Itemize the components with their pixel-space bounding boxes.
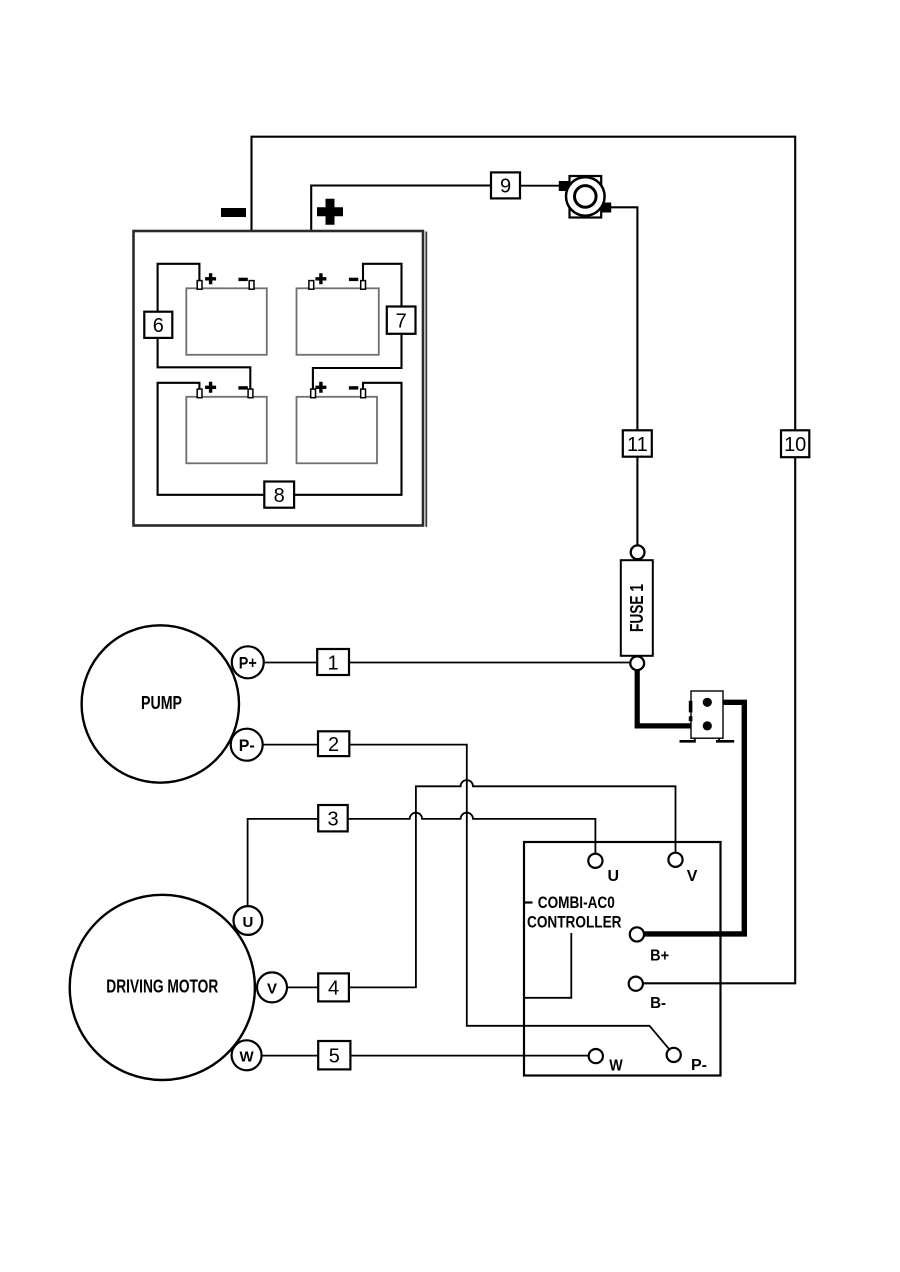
svg-text:7: 7 [396, 311, 407, 333]
wire 9 to keyswitch [520, 185, 560, 187]
svg-text:DRIVING MOTOR: DRIVING MOTOR [106, 977, 218, 997]
polarity marks B4 [315, 382, 326, 393]
label box 1 [317, 649, 349, 675]
svg-text:COMBI-AC0: COMBI-AC0 [538, 893, 615, 912]
polarity marks B2 [315, 273, 326, 284]
fuse F1 [621, 545, 653, 670]
svg-text:10: 10 [784, 434, 806, 456]
svg-text:3: 3 [327, 808, 338, 830]
motor terminal V [257, 972, 287, 1002]
svg-text:P+: P+ [239, 654, 257, 673]
svg-text:U: U [242, 914, 253, 931]
battery posts B2 [309, 281, 314, 290]
controller terminal W [589, 1049, 603, 1063]
polarity marks B1 [205, 273, 216, 284]
pump terminal P+ [232, 646, 264, 678]
controller terminal B+ [630, 927, 644, 941]
key switch KS [559, 176, 611, 218]
svg-text:P-: P- [691, 1057, 707, 1074]
svg-text:CONTROLLER: CONTROLLER [527, 913, 622, 932]
battery posts B3 [197, 389, 202, 398]
label box 11 [623, 430, 652, 456]
big plus symbol [317, 199, 343, 225]
battery B2 (top-right) [297, 288, 379, 355]
svg-text:V: V [267, 981, 277, 998]
controller name text [524, 901, 533, 903]
battery B1 (top-left) [186, 288, 266, 355]
label box 6 [144, 312, 172, 338]
label box 10 [781, 430, 809, 457]
controller internal line under text [525, 933, 571, 998]
pump terminal P- [231, 729, 263, 761]
controller terminal B- [629, 977, 643, 991]
wire 7: battery2 - to battery4 + [313, 264, 402, 391]
thick wire: contactor to controller B+ [645, 702, 745, 934]
contactor / line contactor [680, 691, 735, 741]
wire 5: motor W to controller W [262, 1055, 589, 1057]
wire 4: motor V to controller V with crossover [287, 780, 676, 987]
battery posts B1 [197, 281, 202, 290]
svg-text:W: W [609, 1058, 623, 1075]
label box 3 [318, 805, 348, 831]
pump motor [82, 625, 239, 782]
wire: battery minus to top rail to node 10 down to B- [252, 137, 796, 984]
wire 8: battery3 + to battery4 - [158, 383, 402, 495]
svg-text:6: 6 [153, 315, 164, 337]
driving motor [70, 895, 255, 1080]
wire 1: pump P+ to fuse [264, 662, 631, 664]
svg-text:U: U [608, 868, 620, 885]
battery B4 (bottom-right) [297, 397, 378, 464]
svg-text:B+: B+ [650, 948, 669, 965]
svg-text:P-: P- [239, 736, 255, 755]
wire 3: motor U to controller U with crossovers [248, 813, 596, 907]
wire 2: pump P- to controller P- [263, 745, 670, 1050]
motor terminal W [232, 1040, 262, 1070]
controller terminal U [588, 854, 602, 868]
label box 4 [318, 973, 349, 1001]
svg-text:W: W [240, 1049, 255, 1066]
svg-text:2: 2 [328, 734, 339, 756]
label box 9 [491, 172, 520, 198]
controller terminal P- [667, 1048, 681, 1062]
label box 5 [318, 1041, 350, 1069]
battery B3 (bottom-left) [186, 397, 266, 464]
battery box [134, 231, 424, 526]
svg-text:9: 9 [500, 176, 511, 198]
svg-text:V: V [687, 868, 698, 885]
label box 2 [318, 731, 349, 756]
polarity marks B3 [205, 382, 216, 393]
battery posts B4 [311, 389, 316, 398]
svg-text:5: 5 [329, 1046, 340, 1068]
label box 7 [387, 307, 416, 334]
wire 6: battery1 + to battery3 - [158, 264, 251, 391]
svg-text:4: 4 [328, 978, 339, 1000]
svg-text:1: 1 [328, 652, 339, 674]
svg-text:11: 11 [627, 434, 648, 456]
wire: battery plus up to keyswitch via 9 [311, 186, 491, 284]
wire: keyswitch to fuse via 11 [611, 207, 637, 545]
label box 8 [264, 482, 294, 508]
svg-text:FUSE 1: FUSE 1 [627, 584, 647, 632]
thick wire: fuse to contactor [637, 670, 704, 726]
svg-text:8: 8 [274, 485, 285, 507]
big minus symbol [221, 208, 246, 217]
controller box [524, 842, 721, 1076]
battery box shadow edge [425, 232, 427, 527]
svg-text:PUMP: PUMP [141, 692, 182, 713]
motor terminal U [234, 906, 263, 935]
controller terminal V [668, 853, 682, 867]
svg-text:B-: B- [650, 995, 666, 1012]
